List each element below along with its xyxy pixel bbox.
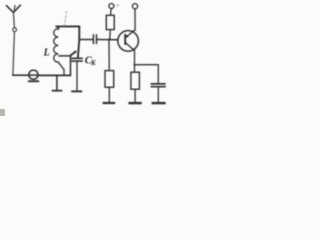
svg-text:L: L — [43, 48, 50, 59]
svg-text:K: K — [90, 59, 97, 67]
